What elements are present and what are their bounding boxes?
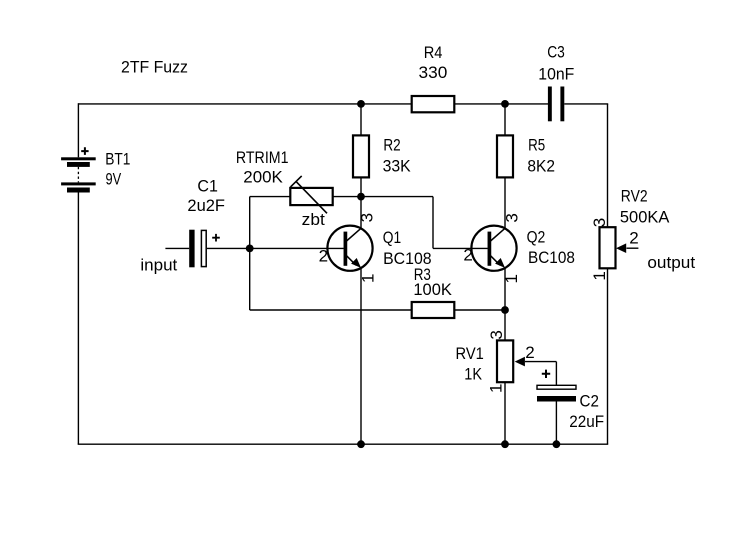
wire top rail left bbox=[78, 103, 411, 105]
svg-text:9V: 9V bbox=[106, 169, 122, 188]
wire input stub bbox=[165, 247, 189, 249]
transistor Q2 bbox=[471, 226, 516, 271]
junction top rail R2 bbox=[357, 100, 365, 108]
svg-text:2TF Fuzz: 2TF Fuzz bbox=[121, 57, 188, 76]
svg-text:BC108: BC108 bbox=[528, 248, 575, 267]
wire Q2 emitter down bbox=[504, 268, 506, 341]
junction node A bbox=[246, 245, 254, 253]
svg-text:2: 2 bbox=[463, 245, 472, 264]
wire left rail lower bbox=[77, 193, 79, 445]
svg-text:2: 2 bbox=[629, 229, 638, 248]
svg-text:3: 3 bbox=[358, 213, 377, 222]
battery BT1 bbox=[61, 147, 96, 192]
svg-text:1: 1 bbox=[487, 384, 506, 393]
svg-text:8K2: 8K2 bbox=[527, 156, 555, 175]
svg-text:C2: C2 bbox=[580, 391, 599, 410]
svg-text:10nF: 10nF bbox=[538, 64, 574, 83]
junction top rail R5 bbox=[501, 100, 509, 108]
junction bottom rail Q1 bbox=[357, 440, 365, 448]
svg-text:22uF: 22uF bbox=[569, 412, 604, 431]
svg-text:33K: 33K bbox=[383, 156, 412, 175]
capacitor C3 bbox=[548, 87, 564, 122]
svg-text:330: 330 bbox=[419, 63, 448, 82]
junction R3 Q2 emitter bbox=[501, 306, 509, 314]
wire link vertical bbox=[432, 197, 434, 249]
junction bottom rail RV1 bbox=[501, 440, 509, 448]
wire top rail mid bbox=[454, 103, 548, 105]
wire top rail right bbox=[564, 103, 608, 105]
svg-text:2: 2 bbox=[525, 343, 534, 362]
wire right rail lower bbox=[607, 268, 609, 444]
svg-text:1: 1 bbox=[590, 271, 609, 280]
svg-text:R2: R2 bbox=[383, 135, 400, 154]
wire C1 to node A bbox=[207, 247, 250, 249]
svg-text:R5: R5 bbox=[528, 135, 545, 154]
svg-text:3: 3 bbox=[487, 330, 506, 339]
svg-text:C3: C3 bbox=[547, 43, 565, 62]
svg-text:BT1: BT1 bbox=[105, 150, 130, 169]
capacitor C1 bbox=[189, 230, 220, 268]
wire RTRIM1 right bbox=[333, 196, 361, 198]
svg-text:RV2: RV2 bbox=[621, 187, 648, 206]
junction RTRIM1 node bbox=[357, 193, 365, 201]
resistor R4 bbox=[412, 96, 455, 112]
resistor R3 bbox=[412, 302, 455, 318]
transistor Q1 bbox=[327, 226, 372, 271]
svg-text:Q2: Q2 bbox=[527, 228, 546, 247]
wire RV2 wiper tail bbox=[627, 247, 639, 249]
svg-text:500KA: 500KA bbox=[620, 208, 670, 227]
resistor R5 bbox=[497, 135, 513, 177]
wire node A down bbox=[249, 248, 251, 310]
potentiometer RV1 bbox=[497, 340, 525, 382]
wire R2 bottom bbox=[360, 177, 362, 196]
svg-text:output: output bbox=[647, 253, 695, 272]
wire link horizontal bbox=[361, 196, 433, 198]
svg-text:1K: 1K bbox=[464, 365, 482, 384]
svg-text:200K: 200K bbox=[243, 167, 283, 186]
svg-text:input: input bbox=[140, 255, 177, 274]
wire link to Q2 base bbox=[433, 247, 488, 249]
wire C2 bottom bbox=[555, 402, 557, 445]
svg-text:RV1: RV1 bbox=[456, 344, 484, 363]
wire R5 top bbox=[504, 104, 506, 135]
wire node A up bbox=[249, 197, 251, 249]
svg-text:RTRIM1: RTRIM1 bbox=[236, 148, 289, 167]
wire R5 bottom Q2 collector bbox=[504, 177, 506, 228]
potentiometer RV2 bbox=[600, 227, 627, 268]
wire left rail upper bbox=[77, 103, 79, 157]
svg-text:R4: R4 bbox=[424, 43, 443, 62]
svg-text:100K: 100K bbox=[413, 280, 452, 299]
svg-text:Q1: Q1 bbox=[383, 228, 401, 247]
wire R3 right bbox=[454, 309, 505, 311]
trimmer RTRIM1 bbox=[290, 176, 332, 213]
svg-text:3: 3 bbox=[590, 218, 609, 227]
svg-text:C1: C1 bbox=[197, 176, 218, 195]
resistor R2 bbox=[353, 135, 369, 177]
svg-text:1: 1 bbox=[358, 274, 377, 283]
wire RV1 bottom bbox=[504, 382, 506, 444]
svg-text:2: 2 bbox=[319, 246, 328, 265]
wire R2 top bbox=[360, 104, 362, 135]
junction bottom rail C2 bbox=[553, 440, 561, 448]
wire right rail upper bbox=[607, 104, 609, 227]
wire bottom rail bbox=[78, 443, 609, 445]
wire Q1 collector bbox=[360, 197, 362, 229]
svg-text:zbt: zbt bbox=[302, 210, 325, 229]
svg-text:3: 3 bbox=[502, 213, 521, 222]
wire RTRIM1 left bbox=[250, 196, 291, 198]
wire feedback row bbox=[250, 309, 412, 311]
wire RV1 wiper tail bbox=[525, 361, 557, 363]
wire node A to Q1 base bbox=[250, 247, 344, 249]
svg-text:1: 1 bbox=[502, 274, 521, 283]
svg-text:2u2F: 2u2F bbox=[187, 196, 225, 215]
capacitor C2 bbox=[537, 370, 576, 402]
wire Q1 emitter down bbox=[360, 268, 362, 444]
wire wiper down to C2 bbox=[555, 362, 557, 386]
